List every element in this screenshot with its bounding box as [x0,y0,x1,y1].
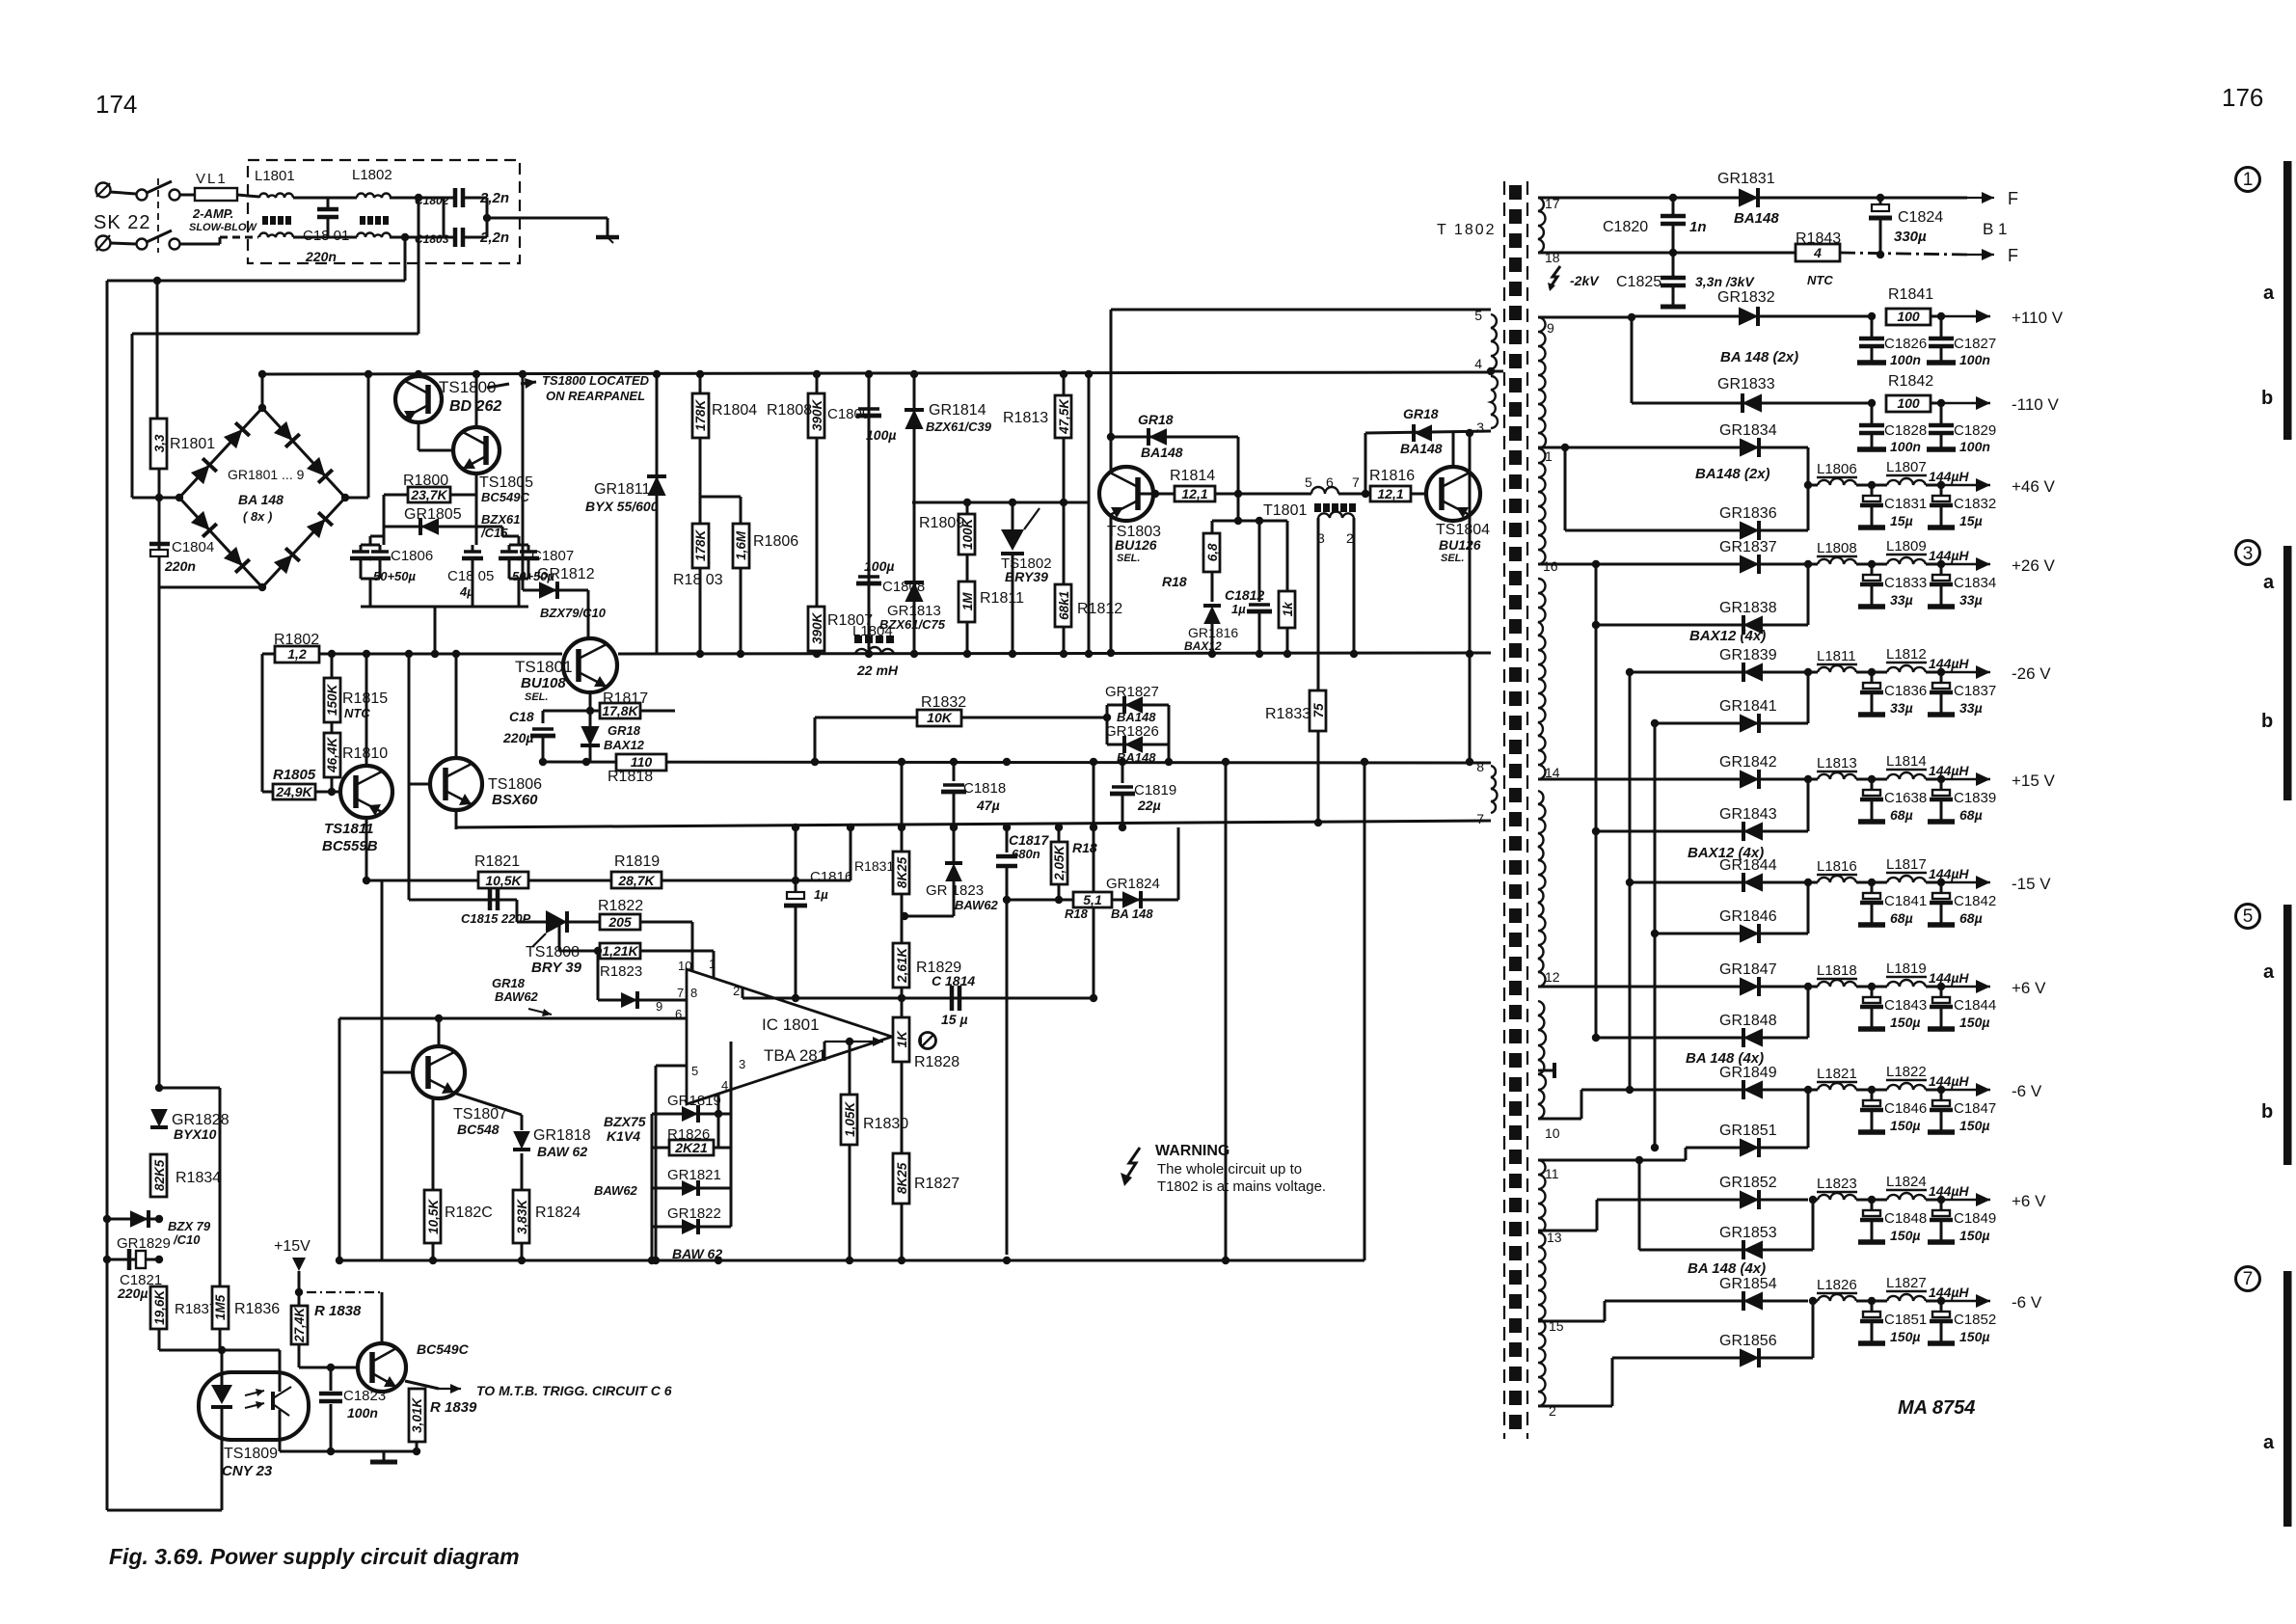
svg-text:C1804: C1804 [172,539,214,555]
svg-text:C1844: C1844 [1954,997,1996,1014]
svg-text:GR1849: GR1849 [1719,1065,1777,1081]
svg-text:GR1822: GR1822 [667,1205,721,1222]
svg-text:1M: 1M [960,592,975,611]
svg-text:16: 16 [1543,558,1558,574]
svg-text:150µ: 150µ [1959,1118,1989,1133]
svg-text:BZX75: BZX75 [604,1114,646,1129]
svg-text:GR1826: GR1826 [1105,723,1159,740]
svg-text:BU108: BU108 [521,675,566,691]
svg-text:SK 22: SK 22 [94,212,150,233]
svg-text:BZX 79: BZX 79 [168,1219,211,1233]
svg-text:R1843: R1843 [1796,230,1841,247]
svg-text:C1834: C1834 [1954,575,1996,591]
svg-text:C1812: C1812 [1225,587,1264,603]
svg-text:178K: 178K [693,528,708,561]
svg-text:BC559B: BC559B [322,838,378,854]
svg-text:10K: 10K [927,710,953,725]
svg-text:100: 100 [1897,309,1920,324]
svg-text:TS1804: TS1804 [1436,522,1490,538]
svg-text:22µ: 22µ [1137,798,1161,813]
svg-text:1,05K: 1,05K [843,1101,857,1137]
svg-text:R1815: R1815 [342,690,388,707]
svg-text:144µH: 144µH [1929,1183,1969,1199]
svg-text:T1801: T1801 [1263,502,1307,519]
svg-text:C1852: C1852 [1954,1312,1996,1328]
svg-text:178K: 178K [693,398,708,431]
svg-text:TS1806: TS1806 [488,776,542,793]
svg-text:GR 1823: GR 1823 [926,882,984,899]
svg-text:T1802 is at mains voltage.: T1802 is at mains voltage. [1157,1178,1326,1195]
svg-text:GR18: GR18 [1138,412,1174,427]
svg-text:6,8: 6,8 [1205,543,1220,561]
svg-text:BAW62: BAW62 [495,989,539,1004]
svg-text:100n: 100n [1890,439,1921,454]
svg-text:C1817: C1817 [1009,832,1049,848]
svg-text:C1848: C1848 [1884,1210,1927,1227]
svg-text:150µ: 150µ [1959,1329,1989,1344]
svg-text:27,4K: 27,4K [292,1307,307,1343]
svg-text:150µ: 150µ [1890,1015,1920,1030]
svg-text:a: a [2263,1432,2275,1453]
svg-text:GR1851: GR1851 [1719,1123,1777,1139]
svg-text:R1828: R1828 [914,1054,959,1070]
svg-text:R1802: R1802 [274,632,319,648]
svg-text:L1817: L1817 [1886,856,1927,873]
svg-text:8: 8 [1476,759,1484,774]
svg-text:R18: R18 [1072,840,1097,855]
svg-text:50+50µ: 50+50µ [373,569,417,583]
svg-text:b: b [2261,711,2273,732]
svg-text:144µH: 144µH [1929,1285,1969,1300]
svg-text:1K: 1K [895,1030,909,1048]
svg-text:C1815 220P: C1815 220P [461,911,531,926]
svg-text:GR1836: GR1836 [1719,505,1777,522]
svg-text:BSX60: BSX60 [492,792,538,808]
svg-text:68µ: 68µ [1890,807,1913,823]
svg-text:174: 174 [95,90,137,119]
svg-text:100n: 100n [1890,352,1921,367]
svg-text:C1843: C1843 [1884,997,1927,1014]
svg-text:8: 8 [690,986,697,1000]
svg-text:C1842: C1842 [1954,893,1996,909]
svg-text:L1806: L1806 [1817,461,1857,477]
svg-text:R1824: R1824 [535,1204,581,1221]
svg-text:R1834: R1834 [176,1170,221,1186]
svg-text:TS1800 LOCATED: TS1800 LOCATED [542,373,650,388]
svg-text:TS1801: TS1801 [515,658,573,676]
svg-text:C1818: C1818 [963,780,1006,797]
svg-text:CNY 23: CNY 23 [222,1463,273,1479]
svg-text:144µH: 144µH [1929,656,1969,671]
svg-text:GR1829: GR1829 [117,1235,171,1252]
svg-text:BC549C: BC549C [417,1341,470,1357]
svg-text:15 µ: 15 µ [941,1012,968,1027]
svg-text:4: 4 [1813,245,1822,260]
svg-text:GR1833: GR1833 [1717,376,1775,392]
svg-text:7: 7 [677,986,684,1000]
svg-text:46,4K: 46,4K [325,737,339,773]
svg-text:C1806: C1806 [391,548,433,564]
svg-text:33µ: 33µ [1959,592,1983,608]
svg-text:R1826: R1826 [667,1126,710,1143]
svg-text:R1819: R1819 [614,853,660,870]
svg-text:BAW 62: BAW 62 [537,1144,587,1159]
svg-text:390K: 390K [810,611,824,644]
svg-text:R1804: R1804 [712,402,757,419]
svg-text:+15 V: +15 V [2012,771,2056,790]
svg-text:L1826: L1826 [1817,1277,1857,1293]
svg-text:3,3n /3kV: 3,3n /3kV [1695,274,1755,289]
svg-text:12,1: 12,1 [1181,486,1207,501]
svg-text:R 1839: R 1839 [430,1399,477,1416]
svg-text:BA148: BA148 [1141,445,1183,460]
svg-text:C1837: C1837 [1954,683,1996,699]
svg-text:10,5K: 10,5K [426,1199,441,1234]
svg-text:GR1811: GR1811 [594,481,651,498]
svg-text:-6 V: -6 V [2012,1082,2042,1100]
svg-text:2,2n: 2,2n [479,190,509,206]
svg-text:L1827: L1827 [1886,1275,1927,1291]
svg-text:R1821: R1821 [474,853,520,870]
svg-text:TO M.T.B. TRIGG. CIRCUIT C 6: TO M.T.B. TRIGG. CIRCUIT C 6 [476,1383,672,1398]
svg-text:BA148 (2x): BA148 (2x) [1695,466,1770,482]
svg-text:C1825: C1825 [1616,274,1661,290]
svg-text:+15V: +15V [274,1238,311,1255]
svg-text:b: b [2261,388,2273,409]
svg-text:GR18: GR18 [608,723,641,738]
svg-text:R1801: R1801 [170,436,215,452]
svg-text:100n: 100n [1959,439,1990,454]
svg-text:BRY39: BRY39 [1005,569,1048,584]
svg-text:GR1853: GR1853 [1719,1225,1777,1241]
svg-text:12,1: 12,1 [1377,486,1403,501]
svg-text:15µ: 15µ [1959,513,1983,528]
svg-text:L1816: L1816 [1817,858,1857,875]
svg-text:L1809: L1809 [1886,538,1927,555]
svg-text:220n: 220n [305,249,337,264]
svg-text:150µ: 150µ [1959,1228,1989,1243]
svg-text:5,1: 5,1 [1083,892,1102,907]
svg-text:144µH: 144µH [1929,469,1969,484]
svg-text:C1828: C1828 [1884,422,1927,439]
svg-text:220n: 220n [164,558,196,574]
svg-text:GR1821: GR1821 [667,1167,721,1183]
svg-text:100µ: 100µ [866,427,896,443]
svg-text:BA 148 (2x): BA 148 (2x) [1720,349,1798,365]
svg-text:15µ: 15µ [1890,513,1913,528]
svg-text:+46 V: +46 V [2012,477,2056,496]
svg-text:BAW62: BAW62 [594,1183,638,1198]
svg-text:GR1801 ... 9: GR1801 ... 9 [228,467,305,482]
svg-text:R1814: R1814 [1170,468,1215,484]
svg-text:GR1805: GR1805 [404,506,462,523]
svg-text:1,6M: 1,6M [734,530,748,560]
svg-text:C18 05: C18 05 [447,568,494,584]
svg-text:7: 7 [1476,811,1484,826]
svg-text:BU126: BU126 [1115,537,1157,553]
svg-text:C1827: C1827 [1954,336,1996,352]
svg-text:WARNING: WARNING [1155,1143,1229,1159]
svg-text:GR1832: GR1832 [1717,289,1775,306]
svg-text:R1832: R1832 [921,694,966,711]
svg-text:BA148: BA148 [1117,710,1156,724]
svg-text:NTC: NTC [344,706,370,720]
svg-text:R1831: R1831 [854,858,894,874]
svg-text:GR1843: GR1843 [1719,806,1777,823]
svg-text:47,5K: 47,5K [1057,398,1071,435]
svg-text:R18: R18 [1162,574,1187,589]
svg-text:C1807: C1807 [531,548,574,564]
svg-text:R18: R18 [1065,907,1089,921]
svg-text:L1821: L1821 [1817,1066,1857,1082]
svg-text:K1V4: K1V4 [607,1128,640,1144]
svg-text:C1846: C1846 [1884,1100,1927,1117]
svg-text:L1822: L1822 [1886,1064,1927,1080]
svg-text:11: 11 [1545,1166,1559,1181]
svg-text:205: 205 [608,914,632,930]
svg-text:GR1854: GR1854 [1719,1276,1777,1292]
svg-text:L1801: L1801 [255,168,295,184]
svg-text:+6 V: +6 V [2012,1192,2046,1210]
svg-text:a: a [2263,961,2275,983]
svg-text:a: a [2263,283,2275,304]
svg-text:9: 9 [656,999,662,1014]
svg-text:-6 V: -6 V [2012,1293,2042,1312]
svg-text:8K25: 8K25 [895,856,909,888]
svg-text:L1811: L1811 [1817,648,1856,664]
svg-text:150µ: 150µ [1890,1329,1920,1344]
svg-text:C18 01: C18 01 [303,228,349,244]
svg-text:100: 100 [1897,395,1920,411]
svg-text:L1813: L1813 [1817,755,1857,771]
svg-text:C1841: C1841 [1884,893,1927,909]
svg-text:82K5: 82K5 [152,1159,167,1191]
svg-text:68k1: 68k1 [1057,591,1071,620]
svg-text:BA148: BA148 [1400,441,1443,456]
svg-text:L1807: L1807 [1886,459,1927,475]
svg-text:R1812: R1812 [1077,601,1122,617]
svg-text:5: 5 [2243,907,2254,927]
svg-text:4: 4 [1474,356,1482,371]
svg-text:33µ: 33µ [1959,700,1983,716]
svg-text:12: 12 [1545,969,1560,985]
svg-text:SEL.: SEL. [1117,553,1140,564]
svg-text:100n: 100n [347,1405,378,1421]
svg-text:C18: C18 [509,709,534,724]
svg-text:R1837: R1837 [175,1301,217,1317]
svg-text:144µH: 144µH [1929,866,1969,881]
svg-text:220µ: 220µ [117,1286,148,1301]
svg-text:R1810: R1810 [342,745,388,762]
svg-text:b: b [2261,1101,2273,1123]
svg-text:BZX61/C39: BZX61/C39 [926,420,992,434]
svg-text:R1842: R1842 [1888,373,1933,390]
svg-text:GR1848: GR1848 [1719,1013,1777,1029]
svg-text:MA 8754: MA 8754 [1898,1397,1975,1419]
svg-text:10: 10 [1545,1125,1560,1141]
svg-text:3: 3 [1476,420,1484,435]
svg-text:9: 9 [1547,320,1554,336]
svg-text:1k: 1k [1281,601,1295,617]
svg-text:2-AMP.: 2-AMP. [192,206,233,221]
svg-text:R1827: R1827 [914,1176,959,1192]
svg-text:L1818: L1818 [1817,962,1857,979]
svg-text:2,61K: 2,61K [895,947,909,984]
svg-text:GR1814: GR1814 [929,402,986,419]
svg-text:TBA 281: TBA 281 [764,1046,826,1065]
svg-text:R1805: R1805 [273,767,316,783]
svg-text:GR1839: GR1839 [1719,647,1777,663]
svg-text:1µ: 1µ [1231,602,1246,616]
svg-text:24,9K: 24,9K [275,784,312,799]
svg-text:GR1818: GR1818 [533,1127,591,1144]
svg-text:R1833: R1833 [1265,706,1310,722]
svg-text:R 1838: R 1838 [314,1303,362,1319]
svg-text:4: 4 [721,1078,728,1093]
svg-text:F: F [2008,189,2018,208]
svg-text:BZX61/C75: BZX61/C75 [879,617,946,632]
svg-text:R1841: R1841 [1888,286,1933,303]
svg-text:GR1824: GR1824 [1106,876,1160,892]
svg-text:R1813: R1813 [1003,410,1048,426]
svg-text:33µ: 33µ [1890,592,1913,608]
svg-text:R182C: R182C [445,1204,493,1221]
svg-text:144µH: 144µH [1929,1073,1969,1089]
svg-text:C1831: C1831 [1884,496,1927,512]
svg-text:VL1: VL1 [196,171,228,187]
svg-text:10,5K: 10,5K [485,873,522,888]
svg-text:C1819: C1819 [1134,782,1176,798]
svg-text:3,83K: 3,83K [515,1199,529,1234]
svg-text:47µ: 47µ [976,798,1000,813]
svg-text:BAX12: BAX12 [1184,639,1222,653]
svg-text:GR1812: GR1812 [537,566,595,582]
svg-text:L1824: L1824 [1886,1174,1927,1190]
svg-text:B 1: B 1 [1983,220,2008,238]
svg-text:68µ: 68µ [1890,910,1913,926]
svg-text:150K: 150K [325,683,339,716]
svg-text:GR1837: GR1837 [1719,539,1777,555]
svg-text:ON REARPANEL: ON REARPANEL [546,389,645,403]
svg-text:IC 1801: IC 1801 [762,1015,820,1034]
svg-text:C1851: C1851 [1884,1312,1927,1328]
svg-text:L1814: L1814 [1886,753,1927,770]
svg-text:C1826: C1826 [1884,336,1927,352]
svg-text:( 8x ): ( 8x ) [243,509,272,524]
svg-text:C1820: C1820 [1603,219,1648,235]
svg-text:GR1841: GR1841 [1719,698,1777,715]
svg-text:3: 3 [739,1057,745,1071]
svg-text:BA 148 (4x): BA 148 (4x) [1686,1050,1764,1067]
svg-text:BA 148 (4x): BA 148 (4x) [1688,1260,1766,1277]
svg-text:144µH: 144µH [1929,763,1969,778]
svg-text:1: 1 [2243,170,2254,190]
svg-text:BRY 39: BRY 39 [531,960,582,976]
svg-text:GR1856: GR1856 [1719,1333,1777,1349]
svg-text:+26 V: +26 V [2012,556,2056,575]
svg-text:BYX 55/600: BYX 55/600 [585,499,659,514]
svg-text:GR1846: GR1846 [1719,908,1777,925]
svg-text:GR1842: GR1842 [1719,754,1777,771]
svg-text:-110 V: -110 V [2012,395,2059,414]
svg-text:R1807: R1807 [827,612,873,629]
svg-text:C1836: C1836 [1884,683,1927,699]
svg-text:L1812: L1812 [1886,646,1927,663]
svg-text:C1832: C1832 [1954,496,1996,512]
svg-text:R1808: R1808 [767,402,812,419]
svg-text:5: 5 [1305,474,1312,490]
svg-text:2,2n: 2,2n [479,230,509,246]
svg-text:R18 03: R18 03 [673,572,723,588]
svg-text:GR18: GR18 [1403,406,1439,421]
svg-text:176: 176 [2222,83,2263,112]
svg-text:110: 110 [631,754,653,770]
svg-text:GR1827: GR1827 [1105,684,1159,700]
svg-text:2,05K: 2,05K [1052,845,1067,881]
svg-text:28,7K: 28,7K [617,873,655,888]
svg-text:R1836: R1836 [234,1301,280,1317]
svg-text:GR1852: GR1852 [1719,1175,1777,1191]
svg-text:3,3: 3,3 [152,434,167,452]
svg-text:T 1802: T 1802 [1437,222,1497,238]
svg-text:GR1831: GR1831 [1717,171,1775,187]
svg-text:GR1816: GR1816 [1188,625,1238,640]
svg-text:-15 V: -15 V [2012,875,2051,893]
svg-text:+6 V: +6 V [2012,979,2046,997]
svg-text:BA 148: BA 148 [1111,907,1153,921]
svg-text:1,21K: 1,21K [602,943,638,959]
svg-text:GR1838: GR1838 [1719,600,1777,616]
svg-text:C1816: C1816 [810,869,852,885]
svg-text:150µ: 150µ [1890,1118,1920,1133]
svg-text:1,2: 1,2 [287,646,307,662]
svg-text:BZX61: BZX61 [481,512,520,527]
svg-text:C1824: C1824 [1898,209,1943,226]
svg-text:SEL.: SEL. [525,691,548,703]
svg-text:GR1834: GR1834 [1719,422,1777,439]
svg-text:BC548: BC548 [457,1122,500,1137]
svg-text:1: 1 [1545,448,1553,464]
svg-text:330µ: 330µ [1894,229,1927,245]
svg-text:68µ: 68µ [1959,910,1983,926]
svg-text:3: 3 [2243,544,2254,564]
svg-text:The whole circuit up to: The whole circuit up to [1157,1161,1302,1177]
svg-text:3,01K: 3,01K [410,1397,424,1433]
svg-text:C1809: C1809 [827,406,870,422]
svg-text:R1809: R1809 [919,515,964,531]
svg-text:C1849: C1849 [1954,1210,1996,1227]
svg-text:7: 7 [1352,474,1360,490]
svg-text:GR1847: GR1847 [1719,961,1777,978]
svg-text:150µ: 150µ [1890,1228,1920,1243]
svg-text:C1833: C1833 [1884,575,1927,591]
svg-text:BAX12 (4x): BAX12 (4x) [1689,628,1766,644]
svg-text:C1823: C1823 [343,1388,386,1404]
svg-text:BA 148: BA 148 [238,492,284,507]
svg-text:6: 6 [1326,474,1334,490]
svg-text:F: F [2008,246,2018,265]
svg-text:L1808: L1808 [1817,540,1857,556]
svg-text:GR18: GR18 [492,976,526,990]
svg-text:R1822: R1822 [598,898,643,914]
svg-text:GR1819: GR1819 [667,1093,721,1109]
svg-text:1n: 1n [1689,219,1707,235]
svg-text:22 mH: 22 mH [856,663,899,678]
svg-text:BAX12: BAX12 [604,738,645,752]
svg-text:75: 75 [1311,703,1326,718]
svg-text:100µ: 100µ [864,558,894,574]
svg-text:C1839: C1839 [1954,790,1996,806]
